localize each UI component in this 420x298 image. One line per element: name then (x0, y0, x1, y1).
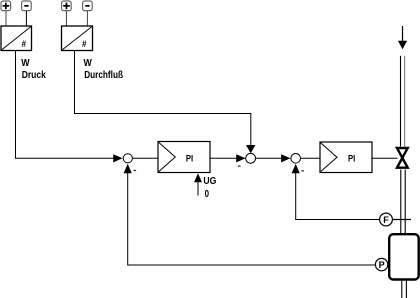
PI controller U4 (flow) (320, 142, 372, 173)
wire minus terminal to converter U2 (86, 11, 88, 26)
wire minus terminal to converter U1 (25, 11, 27, 26)
svg-text:W: W (21, 58, 30, 69)
wire sum2 to sum3 (256, 157, 283, 159)
wire plus terminal to converter U1 (5, 11, 7, 26)
tank T1 (389, 234, 419, 279)
wire PI2 output to valve (372, 157, 398, 159)
svg-text:UG: UG (203, 176, 216, 187)
converter U2 (A/D block, W Durchfluss) (62, 26, 93, 51)
sensor P (375, 258, 387, 270)
svg-text:PI: PI (348, 154, 355, 165)
wire W Durchfluss setpoint: converter2 output down, right, down to sum2 top (75, 51, 251, 147)
svg-text:P: P (379, 260, 385, 270)
wire pressure feedback: from P sensor left to below sum1 then up (128, 167, 376, 265)
summing junction S3 (291, 154, 301, 164)
arrowhead into sum1 from bottom (124, 164, 132, 173)
svg-text:Durchfluß: Durchfluß (84, 70, 123, 81)
minus sign at sum3 (301, 170, 304, 171)
wire F sensor tap across pipe (393, 219, 412, 221)
svg-text:W: W (84, 58, 93, 69)
svg-text:F: F (383, 215, 389, 225)
pipe below tank (401, 281, 403, 298)
svg-text:PI: PI (186, 154, 193, 165)
arrowhead into sum2 from left (236, 154, 245, 162)
arrowhead into sum3 from bottom (292, 164, 300, 173)
minus sign at sum1 (134, 170, 137, 171)
pipe above valve (right line, gray) (404, 56, 406, 147)
svg-text:Druck: Druck (22, 70, 47, 81)
converter U2 plus terminal (62, 1, 72, 11)
svg-text:#: # (22, 39, 27, 50)
arrowhead into sum1 from left (113, 154, 122, 162)
arrowhead into sum2 from top (246, 145, 255, 153)
wire plus terminal to converter U2 (65, 11, 67, 26)
valve V1 (397, 148, 408, 168)
wire sum3 to PI2 (301, 157, 320, 159)
arrowhead inlet flow at top of pipe (402, 26, 404, 42)
converter U1 (A/D block, W Druck) (1, 26, 32, 51)
svg-text:0: 0 (205, 189, 210, 200)
svg-text:#: # (82, 39, 87, 50)
sensor F (380, 213, 393, 226)
summing junction S1 (123, 154, 132, 163)
wire flow feedback: from F sensor left to below sum3 then up (296, 167, 380, 220)
minus sign at sum2 (238, 166, 241, 167)
converter U2 minus terminal (83, 1, 93, 11)
arrowhead into sum3 from left (281, 154, 290, 162)
converter U1 plus terminal (1, 1, 11, 11)
PI controller U3 (pressure) (158, 142, 210, 173)
wire UG 0 input (197, 182, 199, 196)
wire sum1 to PI1 (133, 157, 158, 159)
summing junction S2 (246, 153, 256, 163)
pipe above valve (left line) (400, 56, 402, 147)
wire W Druck setpoint: converter1 output down then right to sum1 (16, 51, 115, 159)
arrowhead UG into PI1 bottom (194, 173, 202, 182)
pipe between valve and tank (400, 170, 402, 234)
wire PI1 output to sum2 (210, 157, 238, 159)
converter U1 minus terminal (22, 1, 32, 11)
